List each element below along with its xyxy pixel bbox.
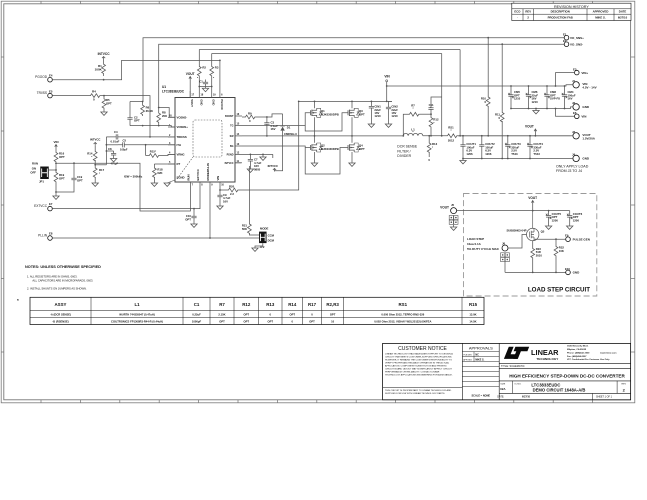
svg-text:*: *: [17, 298, 19, 303]
capacitor CM8 OPT SVP-F8: [544, 85, 560, 109]
svg-text:PCB DES: PCB DES: [463, 354, 472, 356]
svg-text:R2,R3: R2,R3: [326, 302, 339, 307]
wire: [56, 182, 74, 192]
wire TG: [242, 113, 311, 126]
capacitor C8 470pF: [106, 147, 119, 166]
svg-text:RUN: RUN: [186, 174, 190, 180]
wire: [249, 233, 259, 235]
svg-text:OPT: OPT: [267, 319, 273, 323]
svg-text:2010: 2010: [536, 253, 543, 257]
node VIN label at JP1: [53, 140, 58, 150]
wire VOUT rail: [458, 135, 571, 137]
svg-text:TECHNOLOGY APPLICATIONS ENGINE: TECHNOLOGY APPLICATIONS ENGINEERING FOR …: [385, 373, 453, 376]
svg-text:E6: E6: [573, 111, 577, 115]
svg-text:C4: C4: [114, 130, 118, 134]
label load step notes: [467, 237, 499, 251]
svg-text:www.linear.com: www.linear.com: [600, 352, 617, 354]
wire: [258, 237, 261, 239]
ground below R5: [101, 109, 107, 115]
svg-text:0.01uF: 0.01uF: [111, 139, 120, 143]
svg-text:2012: 2012: [448, 138, 455, 142]
resistor R7 * DCR filter: [403, 103, 431, 135]
svg-text:PGND: PGND: [227, 153, 234, 156]
svg-text:WURTH 744355047 (0.47uH): WURTH 744355047 (0.47uH): [119, 312, 155, 316]
svg-text:DCR SENSE: DCR SENSE: [397, 145, 418, 149]
svg-text:APP ENG: APP ENG: [463, 358, 472, 361]
svg-text:TECHNOLOGY: TECHNOLOGY: [537, 357, 560, 361]
wire: [235, 162, 241, 164]
svg-text:APPROVALS: APPROVALS: [469, 345, 493, 350]
svg-text:10K: 10K: [559, 249, 564, 253]
svg-text:ECO: ECO: [514, 10, 521, 14]
capacitor C5 100pF (series ITH): [106, 139, 176, 152]
svg-text:1. ALL RESISTORS ARE IN OHMS,: 1. ALL RESISTORS ARE IN OHMS, 0603.: [27, 274, 78, 278]
capacitor COUT5 OPT 1206: [545, 210, 561, 230]
svg-text:EXTVCC: EXTVCC: [196, 169, 200, 180]
svg-text:OPT: OPT: [289, 312, 295, 316]
svg-text:VO_SNS-: VO_SNS-: [570, 43, 583, 47]
svg-text:0.002 Ohm 2512, VISHAY WSL2512: 0.002 Ohm 2512, VISHAY WSL25122L000FEA: [374, 319, 431, 323]
svg-text:E9: E9: [565, 234, 569, 238]
inductor L1: [403, 127, 423, 135]
svg-text:62K: 62K: [157, 171, 162, 175]
resistor R18 62K (RT): [152, 164, 175, 177]
connector J4 GND: [572, 152, 590, 161]
ground below R18: [151, 177, 157, 186]
turret E4 PGOOD: [35, 73, 53, 82]
svg-text:J2: J2: [572, 101, 576, 105]
ground below Q2: [311, 163, 317, 166]
ground on PGND rail: [260, 154, 266, 160]
svg-text:SVP-F8: SVP-F8: [550, 97, 560, 101]
svg-text:U1: U1: [162, 85, 166, 89]
wire: [571, 135, 573, 137]
wire TRK/SS: [124, 136, 175, 138]
turret E1 VO_SNS+: [563, 33, 584, 40]
svg-text:OPT: OPT: [134, 119, 140, 123]
svg-text:APPLICATION. COMPONENT SUBSTIT: APPLICATION. COMPONENT SUBSTITUTION AND …: [385, 364, 447, 367]
wire: [423, 135, 444, 137]
svg-text:T543: T543: [533, 152, 540, 156]
resistor R4 0: [88, 90, 100, 102]
connector J6 pulse input: [502, 242, 508, 251]
ground below R17: [92, 177, 98, 186]
capacitor C7 4.7uF 16V 0805: [248, 154, 262, 171]
svg-text:FROM J3 TO J4: FROM J3 TO J4: [556, 169, 582, 173]
turret E10 GND: [565, 267, 580, 275]
wire BG to Q4: [305, 148, 348, 175]
svg-text:SGND: SGND: [177, 176, 185, 180]
resistor R21 56K: [242, 166, 251, 233]
svg-text:Fax: (408)434-0507: Fax: (408)434-0507: [567, 355, 587, 358]
svg-text:TG: TG: [230, 125, 233, 128]
svg-text:14.5K: 14.5K: [469, 319, 476, 323]
capacitor CM6 22uF 16V 1210: [526, 85, 539, 109]
capacitor COUT6 OPT 1206: [567, 211, 583, 230]
connector J3 VOUT: [572, 130, 596, 141]
turret E3 VIN+: [573, 67, 588, 74]
svg-text:LTC3833EUDC: LTC3833EUDC: [162, 89, 185, 93]
wire: [100, 95, 108, 97]
svg-text:FILTER /: FILTER /: [397, 149, 410, 153]
svg-text:VIN: VIN: [216, 176, 220, 181]
svg-text:TITLE: SCHEMATIC: TITLE: SCHEMATIC: [501, 364, 525, 368]
svg-text:OPT: OPT: [106, 101, 112, 105]
svg-text:VIN: VIN: [53, 140, 58, 144]
svg-text:OPT: OPT: [77, 178, 83, 182]
svg-text:PLLIN: PLLIN: [38, 233, 48, 237]
svg-text:MIKE S.: MIKE S.: [475, 359, 484, 362]
svg-text:1.5V/20A: 1.5V/20A: [582, 137, 595, 141]
ground below C7: [247, 169, 253, 172]
U1 left pins VOSNS-/VOSNS+/TRK/SS/ITH/VRNG/RT/SGND: [168, 114, 188, 179]
svg-text:OPT: OPT: [330, 312, 336, 316]
ground CM bank: [533, 108, 539, 114]
resistor R20 2.2: [224, 184, 240, 195]
svg-text:R4: R4: [92, 90, 96, 94]
svg-text:ITH: ITH: [177, 143, 182, 147]
svg-text:1630 McCarthy Blvd.: 1630 McCarthy Blvd.: [567, 345, 589, 348]
svg-text:VOSNS+: VOSNS+: [177, 125, 189, 129]
connector J5 VOUT (load step): [440, 203, 456, 214]
svg-text:VOUT: VOUT: [528, 196, 537, 200]
svg-text:CIRCUIT THAT MEETS CUSTOMER-SU: CIRCUIT THAT MEETS CUSTOMER-SUPPLIED SPE…: [385, 355, 452, 358]
svg-text:PGOOD: PGOOD: [35, 75, 48, 79]
svg-text:1210: 1210: [374, 114, 381, 118]
svg-text:C1: C1: [199, 79, 203, 83]
resistor R14 *: [87, 150, 97, 161]
svg-text:E1: E1: [563, 33, 567, 37]
svg-text:PERFORMANCE OR RELIABILITY. C: PERFORMANCE OR RELIABILITY. CONTACT LINE…: [385, 370, 440, 373]
svg-text:DESCRIPTION: DESCRIPTION: [551, 10, 570, 14]
svg-text:REV: REV: [622, 383, 627, 385]
wire SW to L1 junction: [402, 135, 404, 137]
wire EXTVCC: [52, 188, 200, 209]
ground below C1: [202, 87, 208, 92]
wire: [220, 188, 224, 190]
svg-text:CCM: CCM: [268, 234, 275, 238]
resistor R2: [197, 50, 206, 81]
op-amp U1 LTC3833EUDC body: [162, 85, 235, 182]
svg-text:COILTRONICS FP1308R3-R44-R (0.: COILTRONICS FP1308R3-R44-R (0.44uH): [111, 319, 163, 323]
ground below C10: [191, 224, 197, 227]
svg-text:1000pF: 1000pF: [192, 319, 202, 323]
svg-text:SCALE = NONE: SCALE = NONE: [472, 394, 491, 397]
capacitor CIN1 22uF 16V 1210: [369, 101, 381, 124]
connector J2 GND: [572, 101, 590, 110]
ground below CIN1: [368, 124, 374, 127]
svg-text:VOUT: VOUT: [525, 124, 534, 128]
wire: [130, 126, 175, 127]
svg-text:OPT: OPT: [359, 112, 365, 116]
revision history table: [512, 3, 631, 20]
title block frame: [383, 343, 631, 399]
svg-text:1210: 1210: [391, 114, 398, 118]
svg-text:1206: 1206: [573, 218, 580, 222]
svg-text:13.0K: 13.0K: [469, 312, 476, 316]
svg-text:PRODUCTION FAB: PRODUCTION FAB: [548, 16, 573, 20]
svg-text:HIGH EFFICIENCY STEP-DOWN DC-D: HIGH EFFICIENCY STEP-DOWN DC-DC CONVERTE…: [509, 373, 625, 378]
svg-text:SIZE: SIZE: [500, 384, 505, 386]
svg-text:CUSTOMER NOTICE: CUSTOMER NOTICE: [398, 346, 447, 352]
load step circuit dashed box: [464, 194, 597, 297]
wire RUN net: [56, 163, 190, 211]
U1 right pins BOOST/TG/SW/BG/PGND/INTVCC: [225, 113, 242, 165]
connector J1 VIN: [572, 79, 597, 90]
svg-text:2.2: 2.2: [230, 192, 234, 196]
svg-text:1210: 1210: [514, 97, 521, 101]
wire E5 to R4: [52, 95, 88, 97]
svg-text:ONLY APPLY LOAD: ONLY APPLY LOAD: [556, 164, 589, 168]
node VOUT label above U1: [186, 72, 195, 98]
U1 bottom pins RUN/EXTVCC/MODE/PLLIN/VIN: [186, 163, 224, 188]
svg-text:R20: R20: [229, 184, 235, 188]
svg-text:Phone: (408)432-1900: Phone: (408)432-1900: [567, 351, 590, 354]
svg-text:IC NO.: IC NO.: [515, 383, 522, 385]
ground on output rail: [460, 159, 466, 164]
svg-text:4.5V - 14V: 4.5V - 14V: [582, 86, 596, 90]
ground below JP2: [252, 248, 258, 251]
jumper JP2 MODE CCM/DCM: [259, 227, 275, 249]
svg-text:GND: GND: [582, 105, 590, 109]
wire: [565, 107, 573, 109]
svg-text:R2: R2: [202, 65, 206, 69]
ground below C9: [217, 206, 223, 209]
wire: [106, 136, 110, 138]
svg-text:-: -: [517, 17, 518, 20]
wire: [159, 108, 175, 118]
transistor Q4 OPT: [348, 136, 365, 163]
svg-text:5% DUTY CYCLE MAX: 5% DUTY CYCLE MAX: [467, 247, 499, 251]
wire: [536, 238, 566, 240]
svg-text:GND: GND: [212, 99, 216, 105]
svg-text:1206: 1206: [552, 218, 559, 222]
svg-text:SUB85N03-04P: SUB85N03-04P: [506, 228, 526, 232]
svg-text:E7: E7: [49, 202, 53, 206]
wire: [199, 76, 211, 87]
svg-text:1206: 1206: [485, 152, 492, 156]
wire BOOST: [256, 114, 283, 117]
svg-text:E8: E8: [49, 232, 53, 236]
svg-text:RJK0305DPB: RJK0305DPB: [321, 112, 339, 116]
svg-text:C5: C5: [123, 139, 127, 143]
svg-text:VIN: VIN: [581, 115, 586, 119]
svg-text:GND: GND: [573, 271, 581, 275]
svg-text:OPT: OPT: [59, 176, 65, 180]
connector J5 pin grid: [449, 216, 458, 231]
drawing sheet inner border: [4, 4, 631, 400]
wire BG: [242, 146, 311, 148]
svg-text:BOOST: BOOST: [225, 115, 234, 118]
node VIN label top: [384, 75, 390, 102]
svg-text:R7: R7: [219, 302, 225, 307]
svg-text:-A (DCR SENSE): -A (DCR SENSE): [50, 312, 71, 316]
svg-text:R15: R15: [469, 302, 478, 307]
capacitor C4 0.01uF (series TRK/SS): [110, 130, 124, 143]
wire sense-: [212, 53, 442, 55]
svg-text:N/A: N/A: [500, 387, 506, 391]
svg-text:E4: E4: [49, 73, 53, 77]
transistor Q3 OPT: [348, 101, 365, 135]
svg-text:VOUT: VOUT: [440, 205, 449, 209]
svg-text:DATE:: DATE:: [497, 396, 504, 399]
wire PLLIN: [52, 237, 258, 239]
wire VIN riser: [240, 101, 299, 190]
svg-text:R3: R3: [215, 65, 219, 69]
svg-text:RT: RT: [177, 162, 181, 166]
svg-text:10ea 0.1A: 10ea 0.1A: [467, 242, 482, 246]
resistor R19 OPT: [54, 170, 65, 182]
svg-text:SHEET 1 OF 1: SHEET 1 OF 1: [596, 396, 613, 399]
capacitor CM4 100uF 16V: [562, 85, 576, 109]
title rows: [497, 363, 630, 399]
wire SW rail: [242, 135, 403, 137]
svg-text:NC: NC: [475, 354, 479, 357]
svg-text:R9: R9: [248, 112, 252, 116]
svg-text:ASSY: ASSY: [55, 302, 67, 307]
transistor Q5 SUB85N03-04P: [506, 211, 544, 241]
resistor R11 0 (VO_SNS-): [495, 43, 504, 159]
capacitor C11 *: [428, 97, 441, 114]
svg-text:REVISION HISTORY: REVISION HISTORY: [554, 5, 589, 9]
svg-text:INTVCC: INTVCC: [268, 164, 278, 168]
transistor Q1 RJK0305DPB: [311, 101, 339, 135]
wire: [505, 271, 566, 273]
ground below CIN2: [385, 124, 391, 127]
resistor R1 100K: [95, 60, 106, 77]
resistor R10 0 (VO_SNS+): [481, 37, 490, 137]
jumper JP1 RUN ON/OFF: [30, 162, 48, 184]
Linear Technology logo: [504, 347, 559, 361]
svg-text:RJK0330DPB: RJK0330DPB: [321, 147, 339, 151]
resistor R5 OPT (to gnd): [102, 95, 112, 109]
logo address block: [566, 343, 617, 363]
svg-text:2. INSTALL SHUNTS ON JUMPERS: 2. INSTALL SHUNTS ON JUMPERS AS SHOWN.: [27, 286, 87, 290]
svg-text:MODE/PLLIN: MODE/PLLIN: [206, 163, 210, 180]
resistor R13 *: [427, 135, 437, 162]
svg-text:DEMO CIRCUIT 1648A-A/B: DEMO CIRCUIT 1648A-A/B: [533, 388, 586, 393]
wire: [108, 96, 150, 137]
U1 top pins VOUT/GND/GND/PGOOD: [190, 91, 224, 110]
wire: [242, 153, 273, 155]
svg-text:RUN: RUN: [32, 162, 38, 166]
turret E7 EXTVCC: [34, 202, 53, 211]
svg-text:APPROVED: APPROVED: [593, 10, 609, 14]
turret E8 PLLIN: [38, 232, 53, 241]
capacitor COUT2 100uF 6.3V 1206: [479, 135, 495, 160]
capacitor CIN2 22uF 16V 1210: [386, 101, 398, 124]
svg-text:OPT: OPT: [359, 147, 365, 151]
svg-text:E3: E3: [573, 67, 577, 71]
svg-text:100pF: 100pF: [120, 148, 128, 152]
svg-text:VOUT: VOUT: [186, 72, 195, 76]
svg-text:J6: J6: [502, 242, 506, 246]
svg-text:LTC Confidential-For Customer: LTC Confidential-For Customer Use Only: [567, 358, 610, 361]
wire VIN rail: [299, 100, 392, 102]
svg-text:PGOOD: PGOOD: [220, 99, 224, 109]
wire: [94, 160, 96, 166]
capacitor COUT3 330uF 2.5V T543: [505, 135, 521, 160]
power symbol INTVCC divider: [90, 138, 100, 150]
wire sense+: [199, 49, 460, 51]
svg-text:EXTVCC: EXTVCC: [34, 204, 48, 208]
capacitor C9 4.7uF 16V: [217, 189, 230, 206]
svg-text:2.15K: 2.15K: [218, 312, 225, 316]
wire: [272, 154, 274, 158]
label DCR SENSE FILTER DIVIDER: [397, 145, 418, 159]
svg-text:36.5K: 36.5K: [146, 109, 153, 113]
wire VO_SNS-: [159, 44, 565, 107]
wire VOSNS- drop: [441, 54, 443, 136]
svg-text:GND: GND: [199, 99, 203, 105]
svg-text:PULSE GEN: PULSE GEN: [573, 237, 590, 241]
svg-text:R12: R12: [242, 302, 251, 307]
power symbol INTVCC near D1: [268, 164, 278, 171]
svg-text:1210: 1210: [532, 100, 539, 104]
capacitor C19 OPT: [71, 162, 83, 182]
svg-text:SUPPLIED FOR USE WITH LINEAR T: SUPPLIED FOR USE WITH LINEAR TECHNOLOGY …: [385, 392, 445, 395]
svg-text:VIN: VIN: [384, 75, 390, 79]
svg-text:HOWEVER, IT REMAINS THE CUSTOM: HOWEVER, IT REMAINS THE CUSTOMER'S RESPO…: [385, 358, 452, 361]
ground below JP1 network: [53, 191, 59, 199]
capacitor COUT1 100uF 6.3V 1206: [460, 135, 476, 160]
svg-text:OFF: OFF: [30, 170, 36, 174]
node VOUT label at rail: [525, 124, 537, 135]
resistor RS1 sense: [444, 125, 458, 142]
svg-text:6/27/10: 6/27/10: [618, 16, 628, 20]
wire: [556, 73, 575, 86]
wire VO_SNS+: [143, 38, 564, 102]
svg-text:0.000 Ohm 2512, TEPRO RNS-326: 0.000 Ohm 2512, TEPRO RNS-326: [381, 312, 424, 316]
wire: [556, 85, 573, 86]
svg-text:16V: 16V: [271, 127, 276, 131]
svg-text:J5: J5: [451, 203, 455, 207]
resistor R8 20K: [157, 107, 167, 126]
wire: [255, 243, 263, 248]
svg-text:E2: E2: [563, 39, 567, 43]
capacitor C1: [199, 79, 208, 86]
svg-text:CMDSH-3: CMDSH-3: [284, 132, 297, 136]
resistor R16 OPT: [54, 150, 65, 162]
svg-text:VIN+: VIN+: [581, 71, 588, 75]
svg-text:DATE: DATE: [619, 10, 627, 14]
svg-text:10: 10: [331, 319, 334, 323]
svg-text:OPT: OPT: [59, 155, 65, 159]
svg-text:1206: 1206: [466, 152, 473, 156]
svg-text:MIKE S.: MIKE S.: [595, 16, 606, 20]
wire: [571, 157, 573, 159]
svg-text:ALL CAPACITORS ARE IN MICROFAR: ALL CAPACITORS ARE IN MICROFARADS, 0603.: [32, 279, 93, 283]
svg-text:T543: T543: [511, 152, 518, 156]
power symbol INTVCC (R1 pullup): [98, 52, 111, 60]
wire: [211, 87, 213, 92]
turret E9 PULSE GEN: [565, 234, 590, 242]
svg-text:BG: BG: [230, 145, 234, 148]
svg-text:E5: E5: [49, 89, 53, 93]
capacitor C3 0.1uF 16V: [264, 116, 278, 137]
svg-text:56K: 56K: [242, 227, 247, 231]
resistor R15 * (ITH-VRNG): [146, 145, 175, 158]
svg-text:CIRCUIT BOARD LAYOUT MAY SIGNI: CIRCUIT BOARD LAYOUT MAY SIGNIFICANTLY A…: [385, 367, 453, 370]
svg-text:J1: J1: [572, 79, 576, 83]
connector J6 pin grid: [501, 253, 510, 273]
resistor R22 10K: [554, 238, 564, 273]
svg-text:R13: R13: [266, 302, 275, 307]
turret E6 VIN-: [573, 111, 586, 119]
svg-text:16V: 16V: [223, 199, 228, 203]
wire VOSNS+ drop: [459, 50, 461, 136]
svg-text:INTVCC: INTVCC: [98, 52, 111, 56]
